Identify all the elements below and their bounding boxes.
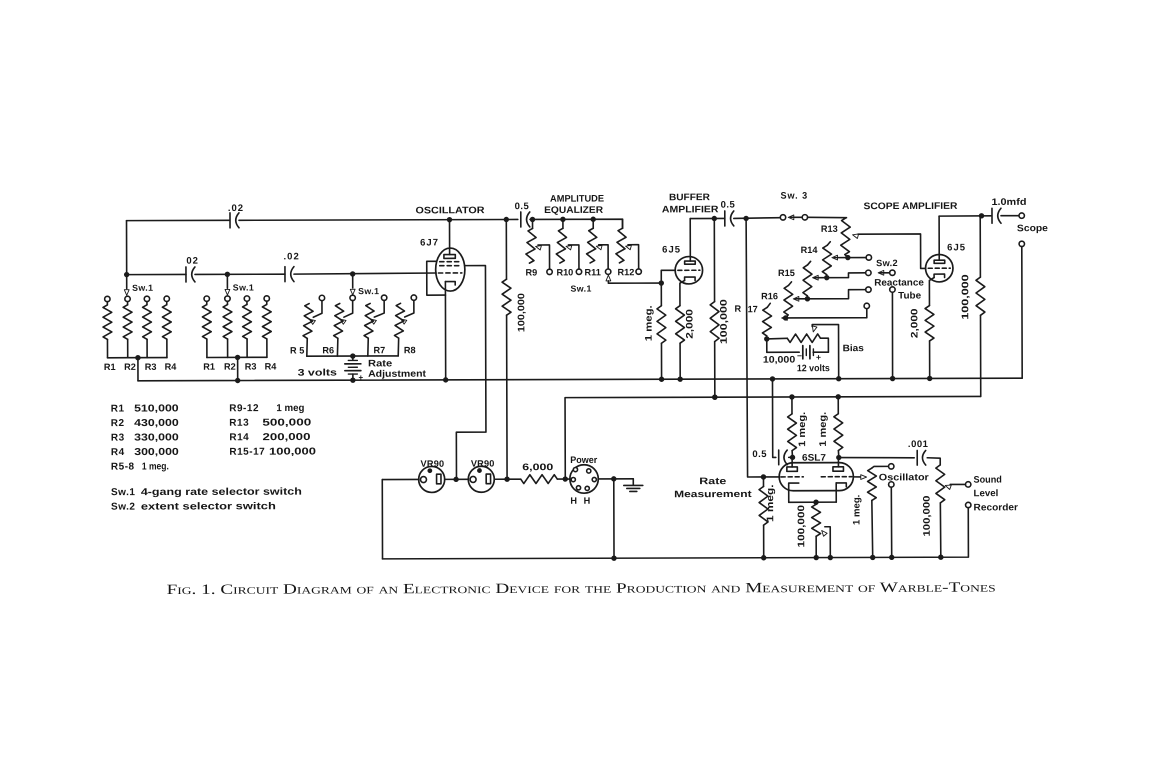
switch Sw.1 gang 2 wiper [226,276,228,288]
tube 6J5 scope cathode [934,274,945,277]
switch Sw.3 [780,215,785,220]
tube 6J5 buffer plate lead [689,219,691,261]
node cathode pot on bottom bus [814,555,819,560]
node row2 left junction [124,272,129,277]
svg-text:R2: R2 [224,362,236,372]
tube 6J7 plate lead [449,220,451,255]
rheostat R5 wiper [313,301,322,318]
rheostat R8 [394,303,404,338]
svg-text:6SL7: 6SL7 [802,453,826,464]
node R10 top [560,217,565,222]
resistor R1 (group 2) contact [204,296,209,301]
svg-text:1 meg.: 1 meg. [797,412,808,447]
svg-text:Sw.2: Sw.2 [876,258,898,268]
potentiometer R13 wiper to scope amplifier [853,234,859,239]
svg-text:Adjustment: Adjustment [368,369,427,380]
rheostat R5 contact [319,295,324,300]
wire to Sw.3 [734,217,781,220]
wire buffer grid [661,270,675,283]
svg-text:1 meg.: 1 meg. [765,484,776,522]
capacitor C .02 (second row right) [284,267,286,282]
svg-text:2,000: 2,000 [909,308,920,338]
node cathode wiper on bottom bus [828,555,833,560]
svg-text:SCOPE AMPLIFIER: SCOPE AMPLIFIER [863,201,957,212]
tube 6J5 scope plate [934,260,945,263]
rheostat R6 [334,303,344,338]
connector Power plug [570,465,598,493]
resistor R4 (group 2) [266,301,268,304]
svg-text:Sw.1: Sw.1 [233,282,254,292]
switch Sw.1 gang 1 wiper [126,277,128,289]
tube 6SL7 left plate [787,467,798,471]
svg-text:R12: R12 [618,267,635,277]
wire VR90 feed [382,478,418,480]
capacitor 0.5 (oscillator output) [520,212,522,227]
tube 6J7 top cap [444,255,455,259]
node 6SL7 left plate junction [790,455,795,460]
capacitor C 02 (second row left) [185,267,187,282]
svg-text:Reactance: Reactance [874,277,924,288]
svg-text:R6: R6 [322,345,334,355]
svg-text:Sw.1: Sw.1 [358,286,379,296]
resistor 100,000 (scope plate load) [979,216,981,277]
node 6SL7 right plate junction [836,455,841,460]
svg-text:Measurement: Measurement [674,489,753,500]
svg-text:R2: R2 [124,362,136,372]
resistor R1 (group 2) [206,301,208,304]
svg-text:R15-17: R15-17 [229,447,265,458]
switch Sw.2 wiper [878,270,884,275]
svg-text:R4: R4 [111,447,125,458]
node group 2 on common bus [235,378,240,383]
resistor 100,000 (oscillator plate load) [505,220,507,280]
potentiometer 10,000 (bias) [767,337,788,340]
wire equalizer top bus [530,219,623,228]
wire group 1 bottom gather [108,357,167,359]
svg-text:1 meg: 1 meg [276,403,304,414]
svg-text:02: 02 [186,256,199,267]
resistor R3 (group 2) [246,301,248,304]
svg-text:R11: R11 [584,267,600,277]
battery 12 volts [767,339,799,352]
svg-text:330,000: 330,000 [134,432,179,443]
svg-text:−: − [797,351,802,361]
svg-text:100,000: 100,000 [960,274,971,319]
node 1 meg on common bus [659,377,664,382]
node group2 Sw.1 junction [225,272,230,277]
row R15 wiper / Sw.2 contact 2 [813,275,819,280]
node battery on common bus [350,377,355,382]
ground symbol [632,479,634,485]
wire bottom common bus [382,508,968,559]
terminal Scope return [1019,241,1024,246]
rheostat R6 wiper [344,301,353,318]
node left grid leak on bottom bus [761,555,766,560]
tube 6SL7 envelope [779,463,853,491]
wire top plate bus left segment [127,219,230,221]
rheostat R6 contact [350,295,355,300]
tube 6J7 envelope [436,248,465,291]
node VR90 screen tap [453,477,458,482]
svg-text:Sw.1: Sw.1 [111,487,135,498]
svg-text:500,000: 500,000 [262,417,311,428]
svg-text:6J7: 6J7 [420,237,439,248]
svg-text:0.5: 0.5 [515,201,530,212]
wire group 1 drop to common bus [137,358,139,381]
resistor 2,000 (scope cathode) [929,278,934,306]
svg-text:12 volts: 12 volts [797,363,830,374]
wire main common bus [138,378,1022,381]
svg-text:Sw.2: Sw.2 [111,502,135,513]
node 2,000 on common bus [677,376,682,381]
node 6SL7 right plate load on B+ bus [836,394,841,399]
node 6SL7 left grid junction [761,474,766,479]
node cathode pot top [813,499,818,504]
resistor 2,000 (buffer cathode) [680,280,685,305]
node oscillator plate junction [447,217,452,222]
tube 6SL7 left grid dashes [781,476,803,478]
svg-text:510,000: 510,000 [134,403,179,414]
svg-text:200,000: 200,000 [262,432,311,443]
resistor 1 meg (6SL7 left plate load) [791,397,793,414]
wire 6,000 to power plug [557,478,570,480]
capacitor 0.5 (buffer output) [724,211,726,226]
rheostat R8 contact [411,295,416,300]
node group3 battery junction [350,353,355,358]
svg-text:100,000: 100,000 [796,505,807,548]
svg-text:Recorder: Recorder [974,502,1019,513]
svg-text:Level: Level [974,488,999,499]
potentiometer 1 meg (rate oscillator grid) [872,466,889,468]
svg-text:R15: R15 [778,268,795,278]
wire group 2 drop to common bus [237,357,239,380]
svg-text:R3: R3 [111,433,125,444]
svg-text:1 meg.: 1 meg. [851,495,862,525]
svg-text:R1: R1 [111,404,125,415]
svg-text:1 meg.: 1 meg. [142,461,169,472]
node power drop on bottom bus [611,555,616,560]
node R11 top [591,217,596,222]
potentiometer sound wiper [945,485,951,489]
rheostat R7 contact [381,295,386,300]
svg-text:3 volts: 3 volts [298,368,337,379]
wire buffer plate bus [690,217,725,219]
svg-text:0.5: 0.5 [721,200,736,211]
resistor R1 (group 1) [106,302,108,305]
potentiometer R15 [808,261,811,265]
svg-text:2,000: 2,000 [684,309,695,339]
svg-text:10,000: 10,000 [763,355,795,366]
potentiometer R17 [767,303,770,307]
svg-text:1 meg.: 1 meg. [818,412,829,447]
terminal Reactance Tube [890,287,895,292]
svg-text:Scope: Scope [1017,223,1048,234]
tube VR90 no.2 [468,466,494,492]
switch Sw.1 contact R10 [576,269,581,274]
capacitor 0.5 (rate measurement coupling) [772,379,775,458]
battery 3 volts (rate adjustment bias) [352,356,354,359]
svg-text:100,000: 100,000 [719,299,730,344]
potentiometer R11 [592,219,594,228]
resistor R4 (group 1) [166,302,168,305]
node R17 bottom [764,336,769,341]
wire group 2 bottom gather [207,356,267,358]
svg-text:.02: .02 [283,251,299,262]
tube 6SL7 right cathode [836,483,846,487]
node oscillator terminal on bottom bus [889,555,894,560]
svg-text:BUFFER: BUFFER [669,192,710,203]
svg-text:R1: R1 [104,362,116,372]
node R9 top [530,217,535,222]
switch Sw.1 contact R12 [636,269,641,274]
svg-text:100,000: 100,000 [922,496,933,537]
resistor R3 (group 1) [146,302,148,305]
svg-text:EQUALIZER: EQUALIZER [544,205,603,216]
svg-text:H H: H H [570,496,592,506]
resistor R2 (group 2) contact [225,296,230,301]
capacitor C .02 (top coupling) [229,213,231,228]
potentiometer R13 [841,218,851,255]
resistor R1 (group 1) contact [105,296,110,301]
svg-text:extent selector switch: extent selector switch [141,501,276,512]
tube 6J5 buffer grid dashes [678,269,700,271]
tube 6J5 scope plate lead [938,216,940,260]
terminal Recorder return [966,502,971,507]
svg-text:R2: R2 [111,418,125,429]
wire row2 segment 1 [127,273,186,275]
potentiometer 100,000 (sound level) [936,465,945,503]
svg-text:Rate: Rate [699,476,726,487]
tube 6J5 buffer plate [685,261,696,264]
svg-text:+: + [816,352,821,362]
node 6SL7 left plate load on B+ bus [789,394,794,399]
potentiometer 10,000 wiper to common bus [812,326,817,332]
tube 6J5 scope envelope [926,254,953,281]
node 100,000 plate resistor junction [504,217,509,222]
svg-text:Bias: Bias [843,343,864,354]
tube 6SL7 right grid exit / wiper arrow [853,476,860,478]
terminal Sound Level hot [965,482,970,487]
svg-text:R5-8: R5-8 [111,462,135,473]
row R17 wiper / Sw.2 contact 4 [782,316,788,321]
node buffer plate load on B+ bus [712,394,717,399]
tube 6SL7 right plate [833,467,844,471]
wire bottom-left riser [381,480,383,559]
tube 6J7 cathode lead to common bus [444,282,446,380]
svg-text:Sound: Sound [973,475,1002,486]
node B+ takeoff [563,476,568,481]
svg-text:.001: .001 [908,439,929,450]
wire VR90 to 6,000 [494,478,520,480]
potentiometer R14 [827,242,830,246]
wire row2 segment 2 [195,273,285,275]
resistor 1 meg (buffer grid leak) [660,283,662,306]
resistor R2 (group 2) [226,301,228,304]
terminal Scope hot [1001,215,1019,217]
svg-text:AMPLIFIER: AMPLIFIER [662,204,719,215]
wire B+ bus [565,396,981,479]
row R16 wiper / Sw.2 contact 3 [793,296,799,301]
svg-text:R 5: R 5 [290,346,304,356]
svg-text:Sw.1: Sw.1 [570,284,591,294]
svg-text:6J5: 6J5 [947,242,966,253]
svg-text:100,000: 100,000 [269,446,317,457]
svg-text:300,000: 300,000 [134,447,179,458]
resistor R2 (group 1) contact [125,296,130,301]
node buffer B+ junction [712,394,717,399]
svg-text:R8: R8 [404,345,416,355]
resistor R3 (group 2) contact [244,296,249,301]
wire cathode join [789,501,836,503]
potentiometer R16 [788,282,791,286]
node power ground junction [611,476,616,481]
resistor 1 meg (6SL7 left grid leak) [762,477,764,486]
resistor R4 (group 1) contact [164,296,169,301]
terminal Oscillator upper [889,464,894,469]
node bias wiper on common bus [836,376,841,381]
svg-text:6J5: 6J5 [662,244,681,255]
resistor 1 meg (6SL7 right plate load) [837,397,839,414]
node 6J7 cathode on common bus [443,377,448,382]
resistor R2 (group 1) [127,302,129,305]
potentiometer R12 wiper [626,245,632,249]
svg-text:R1: R1 [203,362,215,372]
svg-text:R13: R13 [229,418,249,429]
tube 6J7 cathode [445,282,455,285]
svg-text:Fig. 1. Circuit Diagram of an: Fig. 1. Circuit Diagram of an Electronic… [167,580,996,598]
potentiometer R9 wiper [536,246,542,250]
svg-text:R14: R14 [229,432,249,443]
node group 1 gather junction [135,355,140,360]
node buffer grid junction [659,280,664,285]
tube 6J5 buffer cathode [685,277,696,280]
resistor 6,000 (screen dropping) [521,475,558,484]
svg-text:R3: R3 [245,362,257,372]
potentiometer R9 [532,219,534,228]
rheostat R7 wiper [374,300,384,317]
wire group3 bottom gather [307,355,398,357]
node sound pot on bottom bus [938,555,943,560]
svg-text:1 meg.: 1 meg. [644,305,655,341]
node oscillator screen feed [504,476,509,481]
potentiometer 100,000 (6SL7 cathode) [815,502,817,504]
node rate-measurement coupling tap [770,376,775,381]
resistor R 100,000 (buffer plate load) [713,218,715,301]
svg-text:VR90: VR90 [471,459,495,469]
switch Sw.1 gang 3 wiper [352,276,354,288]
rheostat R8 wiper [405,300,414,317]
tube 6SL7 left cathode [789,483,799,502]
rheostat R7 [364,303,374,338]
svg-text:R9-12: R9-12 [229,403,259,414]
tube 6J7 control grid dashes [438,272,461,274]
tube 6J5 scope grid dashes [928,267,950,269]
node scope cathode on common bus [927,376,932,381]
potentiometer R12 [622,219,624,228]
rheostat R5 [303,304,313,339]
row R14 wiper / Sw.2 contact 1 [832,255,838,260]
wire left column [126,221,128,275]
potentiometer R10 [562,219,564,228]
svg-text:R4: R4 [165,362,178,372]
wire rate measurement feed [746,218,763,477]
svg-text:430,000: 430,000 [134,418,179,429]
resistor R3 (group 1) contact [144,296,149,301]
tube VR90 no.1 [419,466,445,492]
switch Sw.1 equalizer wiper [606,275,611,281]
potentiometer R10 wiper [566,246,572,250]
svg-text:100,000: 100,000 [516,293,527,332]
svg-text:R10: R10 [556,267,573,277]
wire between VR90s [445,478,469,480]
wire .001 to sound pot [927,458,940,465]
svg-text:Tube: Tube [898,290,921,301]
wire power plug to ground [598,478,633,480]
resistor R4 (group 2) contact [264,296,269,301]
svg-text:R: R [734,304,741,314]
node group3 Sw.1 junction [350,271,355,276]
svg-text:R4: R4 [265,361,278,371]
svg-text:Sw. 3: Sw. 3 [780,191,808,202]
svg-text:OSCILLATOR: OSCILLATOR [415,205,484,216]
svg-text:.02: .02 [228,203,244,214]
tube 6SL7 right grid dashes [821,476,851,478]
svg-text:17: 17 [748,304,758,314]
node group 2 gather junction [235,355,240,360]
capacitor .001 (rate output) [839,456,914,459]
svg-text:R7: R7 [374,345,386,355]
svg-text:0.5: 0.5 [752,449,767,460]
svg-text:Sw.1: Sw.1 [132,283,153,293]
svg-text:AMPLITUDE: AMPLITUDE [550,194,604,205]
svg-text:R3: R3 [145,362,157,372]
svg-text:R16: R16 [761,291,778,301]
node scope plate load junction [979,213,984,218]
svg-text:4-gang rate selector switch: 4-gang rate selector switch [141,487,302,498]
svg-text:R9: R9 [525,268,537,278]
wire power drop to bottom bus [613,479,615,558]
tube 6J7 shield bracket [427,261,446,295]
node buffer plate resistor junction [712,216,717,221]
wire row2 segment 3 to 6J7 grid [294,273,436,274]
svg-text:Power: Power [570,455,597,466]
wire scope plate bus [939,215,991,217]
terminal Oscillator lower [889,482,894,487]
tube 6J7 screen grid dashes [440,261,462,263]
node rate osc grid pot on bottom bus [870,555,875,560]
capacitor 1.0mfd (scope output) [991,208,993,223]
svg-text:R13: R13 [821,224,838,234]
tube 6J7 screen lead [456,266,486,479]
svg-text:VR90: VR90 [421,459,445,469]
potentiometer 100,000 wiper [822,530,827,536]
switch Sw.1 contact R11 [605,269,610,274]
svg-text:1.0mfd: 1.0mfd [991,197,1026,208]
svg-text:Rate: Rate [368,358,392,369]
svg-text:R14: R14 [801,245,819,255]
potentiometer R11 wiper [596,245,602,249]
svg-text:6,000: 6,000 [522,462,553,473]
tube 6J5 buffer envelope [675,257,702,284]
switch Sw.1 contact R9 [547,269,552,274]
wire top plate bus middle segment [239,218,518,221]
svg-text:Oscillator: Oscillator [879,472,929,483]
node rate measurement tap [743,216,748,221]
